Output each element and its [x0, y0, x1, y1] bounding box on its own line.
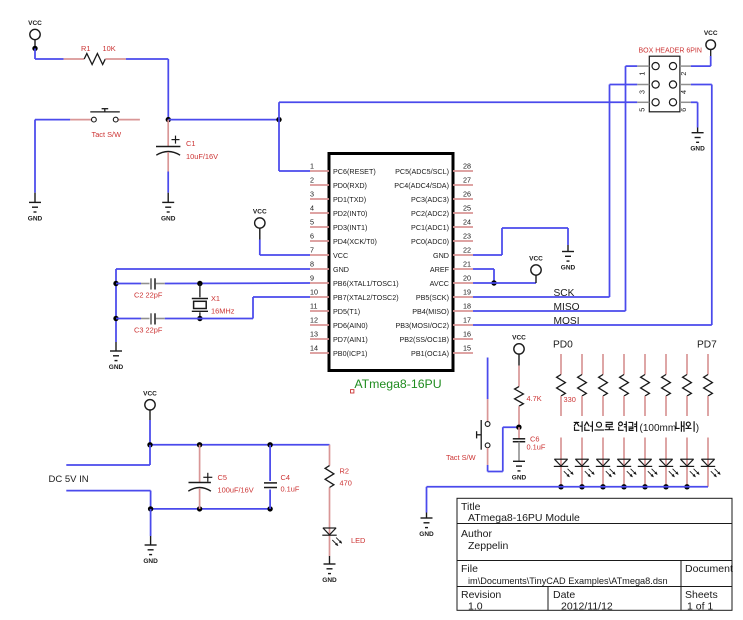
- LED D1: [322, 528, 365, 556]
- header pin 2: [669, 63, 690, 76]
- junction PC6 branch: [276, 117, 281, 122]
- svg-text:(100mm: (100mm: [640, 423, 677, 434]
- svg-text:5: 5: [637, 108, 646, 112]
- svg-text:VCC: VCC: [253, 209, 267, 216]
- power symbol VCC (supply): [143, 390, 157, 420]
- pin 8 GND: [310, 260, 349, 274]
- svg-text:File: File: [461, 563, 478, 575]
- svg-text:24: 24: [463, 218, 471, 227]
- pin 6 PD4(XCK/T0): [310, 232, 377, 246]
- pin 4 PD2(INT0): [310, 204, 367, 218]
- LED array D8 (PD6): [680, 438, 700, 487]
- svg-text:Tact S/W: Tact S/W: [92, 130, 122, 139]
- svg-text:4.7K: 4.7K: [527, 394, 542, 403]
- label MOSI: [554, 316, 580, 327]
- svg-text:14: 14: [310, 344, 318, 353]
- wire MISO net: [473, 66, 637, 311]
- pin 7 VCC: [310, 246, 348, 260]
- svg-text:GND: GND: [561, 265, 576, 272]
- note text (Korean: connect with wire ~100mm): [574, 422, 699, 434]
- header pin 5: [637, 99, 659, 112]
- title block Sheets: [685, 589, 718, 612]
- svg-text:PC0(ADC0): PC0(ADC0): [411, 237, 449, 246]
- svg-text:0.1uF: 0.1uF: [527, 443, 546, 452]
- wire header pin6 to GND: [691, 102, 698, 127]
- wire LED cathode rail: [427, 486, 709, 488]
- svg-text:AVCC: AVCC: [430, 279, 449, 288]
- wire bottom rail: [151, 508, 271, 510]
- junction LED 1 to rail: [558, 484, 563, 489]
- svg-text:6: 6: [310, 232, 314, 241]
- resistor 330 #2 (PD1): [578, 354, 587, 416]
- svg-text:AREF: AREF: [430, 265, 450, 274]
- svg-text:16MHz: 16MHz: [211, 307, 235, 316]
- ground (C6): [512, 461, 527, 481]
- svg-text:C1: C1: [186, 139, 195, 148]
- svg-text:PD3(INT1): PD3(INT1): [333, 223, 367, 232]
- svg-text:PD1(TXD): PD1(TXD): [333, 195, 366, 204]
- svg-text:Revision: Revision: [461, 589, 501, 601]
- pin 13 PD7(AIN1): [310, 330, 368, 344]
- pin 20 AVCC: [430, 274, 473, 288]
- svg-text:Sheets: Sheets: [685, 589, 718, 601]
- svg-text:0.1uF: 0.1uF: [281, 485, 300, 494]
- LED array D6 (PD4): [638, 438, 658, 487]
- svg-text:21: 21: [463, 260, 471, 269]
- svg-text:PB0(ICP1): PB0(ICP1): [333, 349, 367, 358]
- svg-text:PB1(OC1A): PB1(OC1A): [411, 349, 449, 358]
- junction LED 4 to rail: [621, 484, 626, 489]
- pin 28 PC5(ADC5/SCL): [395, 162, 473, 176]
- header pin 1: [637, 63, 659, 76]
- wire SCK net: [473, 85, 637, 298]
- pin 1 PC6(RESET): [310, 162, 376, 176]
- svg-text:LED: LED: [351, 536, 365, 545]
- svg-text:VCC: VCC: [704, 30, 718, 37]
- wire DC input negative: [66, 491, 150, 509]
- svg-text:15: 15: [463, 344, 471, 353]
- svg-text:): ): [696, 423, 699, 434]
- svg-text:1 of 1: 1 of 1: [687, 600, 713, 612]
- wire R1 to reset node: [126, 59, 168, 120]
- resistor 330 #6 (PD5): [662, 354, 671, 416]
- svg-text:Author: Author: [461, 528, 492, 540]
- resistor R3 4.7K: [515, 366, 542, 428]
- wire rail to ground: [426, 487, 428, 518]
- wire VCC to top rail: [149, 420, 151, 445]
- junction top rail / C4: [267, 442, 272, 447]
- title block Title: [461, 501, 580, 524]
- svg-text:Date: Date: [553, 589, 575, 601]
- svg-text:PD7(AIN1): PD7(AIN1): [333, 335, 368, 344]
- wire VCC to pin 7: [260, 240, 310, 256]
- svg-text:MOSI: MOSI: [554, 316, 580, 327]
- resistor 330 #4 (PD3): [620, 354, 629, 416]
- svg-text:GND: GND: [433, 251, 449, 260]
- pin 17 PB3(MOSI/OC2): [395, 316, 473, 330]
- junction LED 6 to rail: [663, 484, 668, 489]
- svg-text:VCC: VCC: [529, 256, 543, 263]
- wire pin 20 AVCC: [473, 282, 536, 284]
- svg-text:2012/11/12: 2012/11/12: [561, 600, 613, 612]
- svg-text:13: 13: [310, 330, 318, 339]
- capacitor C5: [188, 445, 253, 509]
- capacitor C1: [156, 120, 218, 172]
- svg-text:PB6(XTAL1/TOSC1): PB6(XTAL1/TOSC1): [333, 279, 399, 288]
- svg-text:20: 20: [463, 274, 471, 283]
- junction top rail / C5: [197, 442, 202, 447]
- junction C3 left: [113, 316, 118, 321]
- svg-text:C2 22pF: C2 22pF: [134, 291, 163, 300]
- svg-text:25: 25: [463, 204, 471, 213]
- ground (LED rail): [419, 518, 434, 538]
- svg-text:PB3(MOSI/OC2): PB3(MOSI/OC2): [395, 321, 449, 330]
- svg-text:C4: C4: [281, 473, 290, 482]
- resistor R1: [64, 44, 126, 65]
- svg-text:1: 1: [637, 72, 646, 76]
- svg-text:R2: R2: [340, 467, 349, 476]
- pin 26 PC3(ADC3): [411, 190, 473, 204]
- wire pin 22 GND: [473, 228, 568, 255]
- svg-text:10: 10: [310, 288, 318, 297]
- svg-text:PD7: PD7: [697, 340, 717, 351]
- junction bottom rail / C5: [197, 506, 202, 511]
- pin 19 PB5(SCK): [416, 288, 473, 302]
- junction AREF-AVCC: [491, 280, 496, 285]
- svg-text:1: 1: [310, 162, 314, 171]
- svg-text:28: 28: [463, 162, 471, 171]
- svg-text:GND: GND: [143, 558, 158, 565]
- pin 27 PC4(ADC4/SDA): [394, 176, 473, 190]
- svg-text:27: 27: [463, 176, 471, 185]
- junction reset node: [166, 117, 171, 122]
- svg-text:11: 11: [310, 302, 317, 311]
- svg-text:4: 4: [310, 204, 314, 213]
- title block Date: [553, 589, 613, 612]
- svg-text:PB5(SCK): PB5(SCK): [416, 293, 449, 302]
- power symbol VCC (header): [704, 30, 718, 56]
- pin 18 PB4(MISO): [412, 302, 473, 316]
- junction R3/C6/switch: [516, 425, 521, 430]
- resistor 330 #7 (PD6): [683, 354, 692, 416]
- svg-text:3: 3: [310, 190, 314, 199]
- junction bottom rail corner: [148, 506, 153, 511]
- svg-text:10K: 10K: [103, 44, 116, 53]
- wire switch to GND rail: [35, 120, 70, 193]
- svg-text:MISO: MISO: [554, 302, 580, 313]
- svg-text:1.0: 1.0: [468, 600, 483, 612]
- svg-text:2: 2: [310, 176, 314, 185]
- svg-text:330: 330: [564, 395, 576, 404]
- svg-text:VCC: VCC: [333, 251, 348, 260]
- svg-text:VCC: VCC: [143, 390, 157, 397]
- title block Revision: [461, 589, 501, 612]
- junction LED 7 to rail: [684, 484, 689, 489]
- LED array D2 (PD0): [554, 438, 574, 487]
- title block File: [461, 563, 668, 586]
- pin 11 PD5(T1): [310, 302, 360, 316]
- svg-text:PB2(SS/OC1B): PB2(SS/OC1B): [399, 335, 449, 344]
- svg-text:12: 12: [310, 316, 318, 325]
- svg-text:26: 26: [463, 190, 471, 199]
- label MISO: [554, 302, 580, 313]
- ground (C1): [161, 193, 176, 223]
- svg-text:PD5(T1): PD5(T1): [333, 307, 360, 316]
- svg-text:VCC: VCC: [512, 334, 526, 341]
- resistor 330 #3 (PD2): [599, 354, 608, 416]
- ground (header): [690, 128, 705, 153]
- junction below VCC: [32, 46, 37, 51]
- wire pin 15 branch: [487, 358, 489, 400]
- svg-text:PC1(ADC1): PC1(ADC1): [411, 223, 449, 232]
- label BOX HEADER 6PIN: [639, 48, 702, 55]
- ground (switch): [28, 193, 43, 223]
- junction bottom rail / C4: [267, 506, 272, 511]
- junction crystal top: [197, 281, 202, 286]
- svg-text:4: 4: [679, 90, 688, 94]
- svg-text:Document: Document: [685, 563, 733, 575]
- svg-text:6: 6: [679, 108, 688, 112]
- wire top rail to R2: [329, 444, 331, 446]
- svg-text:17: 17: [463, 316, 471, 325]
- svg-text:SCK: SCK: [554, 288, 575, 299]
- svg-text:PD6(AIN0): PD6(AIN0): [333, 321, 368, 330]
- label 330: [564, 395, 576, 404]
- wire C3 to pin 10: [165, 297, 310, 319]
- junction LED 2 to rail: [579, 484, 584, 489]
- ground (pin 22): [561, 245, 576, 272]
- svg-text:PD0: PD0: [553, 340, 573, 351]
- svg-text:GND: GND: [109, 364, 124, 371]
- svg-text:C3 22pF: C3 22pF: [134, 326, 163, 335]
- LED array D4 (PD2): [596, 438, 616, 487]
- wire input to ground: [150, 509, 152, 536]
- pin 16 PB2(SS/OC1B): [399, 330, 473, 344]
- wire DC input positive: [66, 445, 150, 465]
- svg-text:PB7(XTAL2/TOSC2): PB7(XTAL2/TOSC2): [333, 293, 399, 302]
- svg-text:GND: GND: [322, 577, 337, 584]
- svg-text:PC4(ADC4/SDA): PC4(ADC4/SDA): [394, 181, 449, 190]
- svg-text:23: 23: [463, 232, 471, 241]
- junction crystal bottom: [197, 316, 202, 321]
- svg-text:Zeppelin: Zeppelin: [468, 540, 508, 552]
- svg-text:R1: R1: [81, 44, 90, 53]
- junction LED 3 to rail: [600, 484, 605, 489]
- resistor 330 #8 (PD7): [704, 354, 713, 416]
- title block Author: [461, 528, 508, 552]
- pin 22 GND: [433, 246, 473, 260]
- svg-text:GND: GND: [28, 215, 43, 222]
- ground (supply): [143, 536, 158, 565]
- power symbol VCC (pin 7): [253, 209, 267, 240]
- svg-text:9: 9: [310, 274, 314, 283]
- LED array D5 (PD3): [617, 438, 637, 487]
- pin 5 PD3(INT1): [310, 218, 367, 232]
- pin 9 PB6(XTAL1/TOSC1): [310, 274, 399, 288]
- svg-text:VCC: VCC: [28, 20, 42, 27]
- svg-text:8: 8: [310, 260, 314, 269]
- wire C1 to ground: [167, 172, 169, 193]
- wire top rail: [150, 444, 330, 446]
- svg-text:10uF/16V: 10uF/16V: [186, 152, 218, 161]
- header pin 6: [669, 99, 690, 112]
- svg-text:PB4(MISO): PB4(MISO): [412, 307, 449, 316]
- svg-text:PD2(INT0): PD2(INT0): [333, 209, 367, 218]
- svg-text:Tact S/W: Tact S/W: [446, 453, 476, 462]
- title block Document: [685, 563, 733, 575]
- svg-text:PC2(ADC2): PC2(ADC2): [411, 209, 449, 218]
- LED array D7 (PD5): [659, 438, 679, 487]
- pin 14 PB0(ICP1): [310, 344, 367, 358]
- wire VCC to R1: [35, 48, 64, 59]
- svg-text:GND: GND: [419, 531, 434, 538]
- junction top rail / VCC: [147, 442, 152, 447]
- pin 3 PD1(TXD): [310, 190, 366, 204]
- wire header pin2 to VCC: [691, 56, 711, 66]
- wire reset branch up to header pin5: [279, 102, 637, 119]
- ground (LED): [322, 564, 337, 584]
- svg-text:ATmega8-16PU: ATmega8-16PU: [354, 377, 441, 391]
- power symbol VCC (reset pull-up): [28, 20, 42, 48]
- svg-text:BOX HEADER 6PIN: BOX HEADER 6PIN: [639, 48, 702, 55]
- resistor 330 #1 (PD0): [557, 354, 566, 416]
- wire C2 to pin 9: [165, 282, 310, 285]
- capacitor C2: [116, 278, 165, 299]
- LED array D3 (PD1): [575, 438, 595, 487]
- svg-text:PC5(ADC5/SCL): PC5(ADC5/SCL): [395, 167, 449, 176]
- wire pin 21 AREF: [473, 269, 494, 283]
- svg-text:PC3(ADC3): PC3(ADC3): [411, 195, 449, 204]
- pin 23 PC0(ADC0): [411, 232, 473, 246]
- svg-text:18: 18: [463, 302, 471, 311]
- svg-text:470: 470: [340, 479, 352, 488]
- label PD7: [697, 340, 717, 351]
- connector J1 box header body: [649, 56, 680, 112]
- label ATmega8-16PU: [351, 377, 442, 393]
- svg-text:GND: GND: [161, 215, 176, 222]
- svg-text:7: 7: [310, 246, 314, 255]
- pin 12 PD6(AIN0): [310, 316, 368, 330]
- svg-text:GND: GND: [690, 146, 705, 153]
- header pin 4: [669, 81, 690, 94]
- title block frame: [457, 498, 732, 610]
- svg-text:DC 5V IN: DC 5V IN: [49, 474, 89, 485]
- wire pin 8 GND to crystal rail: [116, 269, 310, 342]
- tact switch S2 Tact S/W: [446, 399, 490, 465]
- capacitor C4: [264, 445, 300, 509]
- svg-text:PC6(RESET): PC6(RESET): [333, 167, 376, 176]
- svg-text:GND: GND: [333, 265, 349, 274]
- wire MOSI net: [473, 85, 712, 326]
- svg-text:100uF/16V: 100uF/16V: [218, 486, 254, 495]
- crystal X1: [192, 284, 235, 319]
- resistor R2: [325, 445, 352, 528]
- svg-text:ATmega8-16PU Module: ATmega8-16PU Module: [468, 512, 580, 524]
- wire LED to ground: [329, 556, 331, 564]
- pin 10 PB7(XTAL2/TOSC2): [310, 288, 399, 302]
- junction LED 5 to rail: [642, 484, 647, 489]
- header pin 3: [637, 81, 659, 94]
- pin 2 PD0(RXD): [310, 176, 367, 190]
- resistor 330 #5 (PD4): [641, 354, 650, 416]
- wire switch S2 to node: [488, 427, 519, 471]
- pin 25 PC2(ADC2): [411, 204, 473, 218]
- power symbol VCC (AVCC): [529, 256, 543, 284]
- pin 15 PB1(OC1A): [411, 344, 473, 358]
- wire reset branch to pin1: [279, 120, 310, 171]
- op-amp U1 ATmega8 IC body: [329, 154, 453, 371]
- ground (crystal): [109, 342, 124, 371]
- tact switch S1 Tact S/W: [70, 109, 140, 139]
- svg-text:2: 2: [679, 72, 688, 76]
- capacitor C6: [513, 427, 546, 461]
- capacitor C3: [116, 313, 165, 334]
- svg-text:im\Documents\TinyCAD Examples\: im\Documents\TinyCAD Examples\ATmega8.ds…: [468, 576, 668, 586]
- svg-text:PD0(RXD): PD0(RXD): [333, 181, 367, 190]
- svg-text:PD4(XCK/T0): PD4(XCK/T0): [333, 237, 377, 246]
- pin 21 AREF: [430, 260, 473, 274]
- junction C2 left: [113, 281, 118, 286]
- svg-text:19: 19: [463, 288, 471, 297]
- label SCK: [554, 288, 575, 299]
- pin 24 PC1(ADC1): [411, 218, 473, 232]
- LED array D9 (PD7): [701, 438, 721, 487]
- svg-text:5: 5: [310, 218, 314, 227]
- wire reset node to PC6 branch: [168, 119, 279, 121]
- label DC 5V IN: [49, 474, 89, 485]
- svg-text:C5: C5: [218, 473, 227, 482]
- power symbol VCC (4.7K): [512, 334, 526, 365]
- svg-text:GND: GND: [512, 474, 527, 481]
- svg-text:3: 3: [637, 90, 646, 94]
- svg-text:X1: X1: [211, 294, 220, 303]
- svg-text:16: 16: [463, 330, 471, 339]
- label PD0: [553, 340, 573, 351]
- svg-text:22: 22: [463, 246, 471, 255]
